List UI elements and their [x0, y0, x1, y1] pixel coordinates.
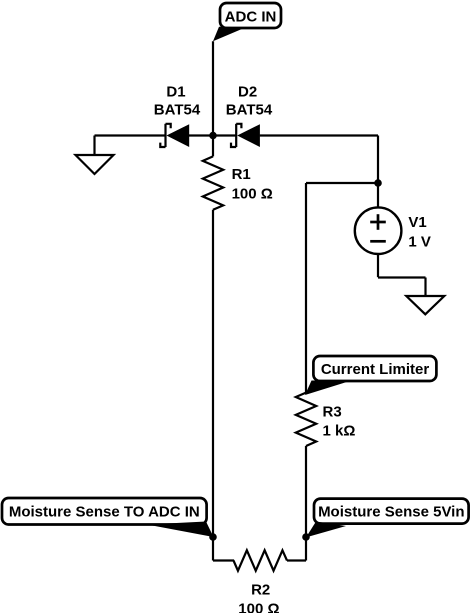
wire junction to D2 cathode: [213, 134, 236, 136]
wire up to bottom-right junction: [305, 537, 307, 561]
diode D2 BAT54 (Schottky): [231, 124, 260, 147]
net label Moisture Sense TO ADC IN: [2, 498, 207, 525]
svg-text:1 V: 1 V: [408, 234, 431, 251]
voltage source V1: [355, 207, 402, 254]
wire V1 junction down to source: [377, 183, 379, 207]
wire D1 to center junction: [189, 134, 213, 136]
svg-text:BAT54: BAT54: [154, 101, 201, 118]
svg-text:R3: R3: [323, 403, 342, 420]
wire right lead from R2: [287, 559, 306, 561]
Moisture Sense TO ADC IN callout pointer: [147, 522, 214, 538]
wire right corner down to V1 junction: [377, 136, 379, 184]
Moisture Sense 5Vin callout pointer: [306, 522, 346, 538]
wire left ground stub vertical: [93, 136, 95, 156]
svg-text:Current Limiter: Current Limiter: [321, 361, 430, 378]
wire V1 bottom right: [378, 276, 426, 278]
resistor R1: [203, 156, 223, 209]
wire V1 junction to left branch: [306, 182, 378, 184]
ADC IN callout pointer: [213, 27, 246, 42]
wire D2 to right corner: [260, 134, 378, 136]
junction dot (bottom left node): [209, 533, 217, 541]
ground (left): [76, 155, 114, 174]
junction dot (bottom right node): [302, 533, 310, 541]
svg-text:1 kΩ: 1 kΩ: [323, 422, 356, 439]
svg-text:R2: R2: [251, 582, 270, 599]
svg-text:BAT54: BAT54: [226, 101, 273, 118]
wire junction down to R1: [212, 136, 214, 157]
svg-text:Moisture Sense TO ADC IN: Moisture Sense TO ADC IN: [9, 504, 200, 521]
net label Moisture Sense 5Vin: [314, 499, 469, 524]
wire R1 down to bottom-left junction: [212, 210, 214, 537]
svg-text:D1: D1: [166, 83, 185, 100]
diode D1 BAT54 (Schottky): [160, 124, 189, 147]
svg-text:100 Ω: 100 Ω: [232, 185, 273, 202]
wire down to right ground: [424, 278, 426, 297]
resistor R3: [296, 393, 316, 446]
svg-text:100 Ω: 100 Ω: [238, 600, 279, 613]
resistor R2: [234, 550, 288, 570]
wire left lead to R2: [213, 559, 234, 561]
junction dot (ADC node): [209, 132, 217, 140]
ground (right): [406, 296, 444, 314]
svg-text:D2: D2: [238, 83, 257, 100]
svg-text:Moisture Sense 5Vin: Moisture Sense 5Vin: [318, 504, 464, 521]
wire R3 down to bottom-right junction: [305, 446, 307, 537]
wire ADC IN down to diode junction: [212, 41, 214, 135]
Current Limiter callout pointer: [305, 381, 352, 396]
net label Current Limiter: [313, 356, 436, 381]
svg-text:R1: R1: [232, 166, 251, 183]
wire bottom-left junction down: [212, 537, 214, 561]
junction dot (V1 top node): [374, 179, 382, 187]
svg-text:V1: V1: [408, 214, 426, 231]
wire V1 bottom down: [377, 254, 379, 277]
svg-text:ADC IN: ADC IN: [225, 9, 277, 26]
net label ADC IN: [220, 3, 281, 28]
wire long vertical branch down to R3: [305, 183, 307, 393]
wire left ground to D1 cathode: [95, 134, 166, 136]
